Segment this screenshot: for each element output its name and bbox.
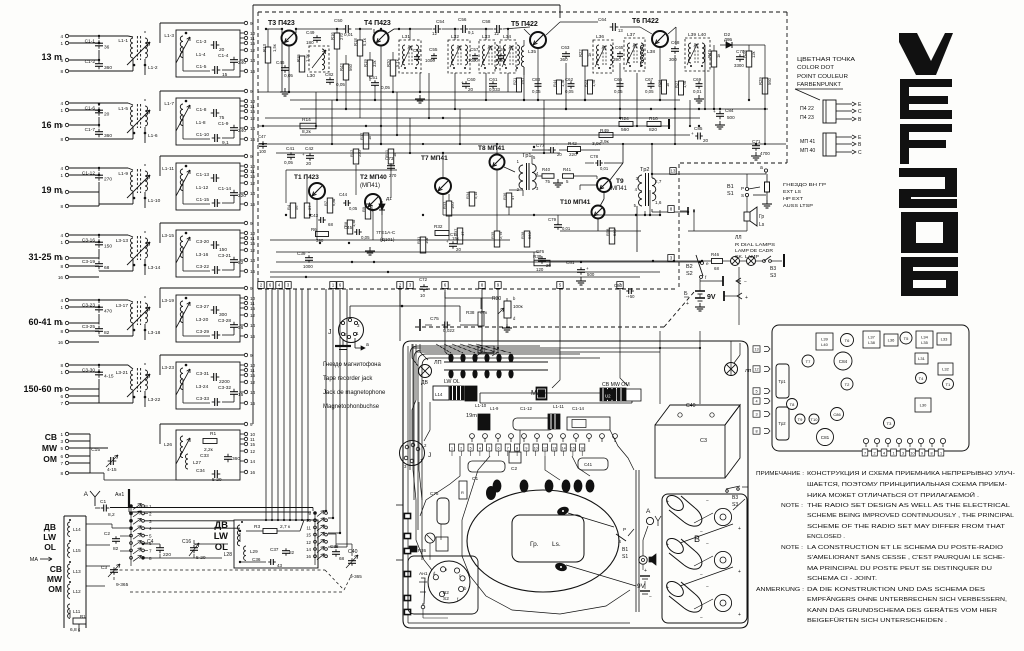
svg-text:8: 8 — [60, 264, 63, 269]
resistor R11 — [388, 149, 394, 164]
svg-text:L32: L32 — [942, 367, 949, 372]
svg-text:5: 5 — [60, 387, 63, 392]
svg-text:16: 16 — [250, 470, 256, 475]
wire — [182, 247, 184, 271]
svg-text:C33: C33 — [200, 453, 209, 459]
svg-text:6: 6 — [60, 394, 63, 399]
wire — [281, 29, 283, 92]
svg-text:L1-8: L1-8 — [196, 120, 206, 126]
coil L3-23 — [180, 368, 183, 390]
svg-text:FARBENPUNKT: FARBENPUNKT — [797, 82, 842, 88]
svg-text:1: 1 — [892, 452, 894, 456]
svg-text:B1: B1 — [622, 547, 628, 553]
svg-text:8,2: 8,2 — [108, 512, 115, 518]
svg-text:14: 14 — [250, 459, 256, 464]
svg-text:470: 470 — [104, 309, 112, 315]
svg-text:L1-3: L1-3 — [164, 33, 174, 39]
svg-text:C1-2: C1-2 — [85, 59, 96, 65]
svg-text:Tр2: Tр2 — [640, 167, 649, 173]
wire — [651, 144, 653, 178]
edge connector tab 5 — [557, 282, 563, 289]
svg-text:T5 П422: T5 П422 — [511, 21, 538, 28]
svg-text:270: 270 — [389, 173, 397, 178]
svg-text:L14: L14 — [435, 392, 443, 397]
svg-text:L1-1: L1-1 — [118, 38, 128, 44]
svg-text:1,3к: 1,3к — [305, 54, 310, 62]
svg-text:15: 15 — [238, 392, 244, 398]
wire — [524, 29, 530, 35]
svg-text:ГНЕЗДО ВН ГР: ГНЕЗДО ВН ГР — [783, 182, 826, 187]
svg-text:56: 56 — [238, 325, 244, 331]
capacitor C86 — [831, 408, 844, 421]
svg-text:L35: L35 — [528, 49, 536, 55]
chassis top interior rails — [412, 347, 700, 349]
svg-text:8: 8 — [60, 329, 63, 334]
svg-text:C56: C56 — [458, 17, 467, 22]
svg-text:L27: L27 — [193, 460, 201, 466]
ground — [284, 88, 286, 92]
svg-text:T10: T10 — [811, 417, 819, 422]
svg-text:+: + — [302, 152, 305, 157]
resistor R36 — [506, 193, 512, 207]
svg-text:ПРИМЕЧАНИЕ :: ПРИМЕЧАНИЕ : — [756, 471, 804, 477]
resistor R16 — [334, 33, 340, 49]
coil L11 — [68, 604, 70, 618]
svg-text:1к: 1к — [587, 53, 592, 57]
svg-text:ДВ: ДВ — [44, 522, 56, 532]
wire — [182, 180, 184, 204]
svg-text:220: 220 — [357, 150, 362, 157]
terminal 14 — [244, 58, 247, 61]
terminal 15 — [244, 109, 247, 112]
svg-text:KANN DAS GRUNDSCHEMA DES G: KANN DAS GRUNDSCHEMA DES GERÄTES VOM HIE… — [807, 607, 997, 614]
transistor T8 — [787, 399, 798, 410]
svg-text:2,7 к: 2,7 к — [280, 524, 291, 530]
svg-text:C1-3: C1-3 — [196, 39, 207, 45]
dashed gang coupling — [113, 570, 115, 580]
headphone jack chassis — [639, 556, 647, 564]
svg-text:C40: C40 — [686, 403, 696, 409]
coil unit L13 — [465, 386, 477, 401]
svg-text:1,6: 1,6 — [655, 200, 662, 205]
svg-text:C80: C80 — [614, 283, 623, 288]
svg-text:e: e — [706, 261, 709, 266]
coil L14 — [68, 522, 70, 536]
svg-text:R4: R4 — [286, 204, 291, 210]
svg-text:S'AMELIORANT SANS CESSE , C': S'AMELIORANT SANS CESSE , C'EST PAURQUAI… — [807, 555, 1005, 561]
svg-text:T6: T6 — [845, 338, 850, 343]
svg-text:C3: C3 — [101, 565, 107, 571]
svg-text:−: − — [700, 572, 703, 578]
svg-text:L30: L30 — [307, 73, 315, 79]
svg-text:L3-13: L3-13 — [116, 238, 129, 244]
svg-text:B3: B3 — [770, 266, 776, 272]
svg-text:C3-22: C3-22 — [196, 264, 209, 270]
svg-text:C55: C55 — [429, 47, 438, 52]
svg-text:-+50: -+50 — [626, 294, 635, 299]
svg-text:C: C — [858, 150, 862, 156]
svg-text:L3-16: L3-16 — [196, 252, 209, 258]
svg-text:20: 20 — [456, 247, 461, 252]
wire — [422, 609, 424, 618]
svg-text:160: 160 — [450, 202, 455, 209]
svg-text:4-15: 4-15 — [104, 374, 114, 380]
svg-text:C77: C77 — [536, 143, 545, 148]
terminal 10 — [244, 164, 247, 167]
wire — [239, 533, 241, 542]
resistor R9 — [365, 204, 371, 219]
svg-text:C46: C46 — [276, 60, 285, 65]
resistor R58 — [609, 228, 615, 244]
svg-text:R18: R18 — [353, 38, 358, 46]
svg-text:14: 14 — [306, 547, 311, 552]
svg-text:R58: R58 — [605, 228, 610, 236]
svg-text:C58: C58 — [482, 19, 491, 24]
wire — [160, 22, 244, 24]
svg-text:НИКА МОЖЕТ ОТЛИЧАТЬСЯ ОТ П: НИКА МОЖЕТ ОТЛИЧАТЬСЯ ОТ ПРИЛАГАЕМОЙ . — [807, 491, 979, 499]
svg-text:L3-14: L3-14 — [148, 265, 161, 271]
svg-text:(МП41): (МП41) — [360, 183, 380, 189]
terminal 9 — [244, 154, 247, 157]
svg-text:C74: C74 — [450, 232, 459, 237]
svg-text:U2: U2 — [605, 394, 611, 399]
terminal 11 — [244, 169, 247, 172]
svg-text:3300: 3300 — [734, 63, 744, 68]
svg-text:Д9Б: Д9Б — [724, 37, 732, 42]
svg-text:C1-12: C1-12 — [520, 406, 533, 411]
svg-text:180: 180 — [306, 40, 314, 45]
wire — [160, 222, 244, 224]
svg-text:BEIGEFÜRTEN SICH UNTERSCHEID: BEIGEFÜRTEN SICH UNTERSCHEIDEN . — [807, 617, 947, 624]
svg-text:5: 5 — [60, 321, 63, 326]
resistor R35 — [494, 231, 500, 247]
svg-text:8: 8 — [516, 447, 518, 451]
svg-text:S1: S1 — [622, 554, 628, 560]
svg-text:47: 47 — [510, 195, 515, 200]
wire — [160, 155, 244, 157]
svg-text:4: 4 — [60, 166, 63, 171]
terminal 15 — [244, 174, 247, 177]
band switch drum — [444, 361, 548, 363]
wire — [481, 289, 483, 341]
svg-text:R20: R20 — [386, 59, 391, 67]
transistor T3 — [884, 418, 895, 429]
svg-text:0,05: 0,05 — [361, 235, 370, 240]
svg-text:C63: C63 — [561, 45, 570, 50]
svg-text:16 m: 16 m — [41, 120, 62, 130]
band switch S1 contacts — [130, 505, 133, 508]
svg-text:16: 16 — [58, 340, 64, 345]
svg-text:T10 МП41: T10 МП41 — [560, 199, 591, 206]
svg-text:POINT COULEUR: POINT COULEUR — [797, 74, 848, 80]
svg-text:12: 12 — [754, 368, 758, 372]
wire — [740, 44, 765, 46]
svg-text:15: 15 — [250, 442, 256, 447]
svg-text:J: J — [328, 329, 332, 336]
wire — [252, 5, 254, 23]
switch B3 S3 — [763, 260, 766, 263]
svg-text:LW: LW — [43, 532, 57, 542]
svg-text:3: 3 — [902, 452, 904, 456]
svg-text:560: 560 — [612, 229, 617, 236]
svg-text:C64: C64 — [598, 17, 607, 22]
capacitor C1-6 — [95, 109, 103, 111]
svg-text:4700: 4700 — [760, 151, 770, 156]
ground — [342, 339, 344, 346]
svg-text:9,1: 9,1 — [222, 140, 229, 146]
svg-text:OM: OM — [43, 454, 57, 464]
wire — [252, 23, 254, 424]
svg-text:5: 5 — [60, 190, 63, 195]
svg-text:C47: C47 — [258, 134, 266, 139]
svg-text:2,7: 2,7 — [655, 179, 662, 184]
svg-text:68: 68 — [714, 266, 719, 271]
resistor R21 — [517, 78, 522, 92]
svg-text:L3-19: L3-19 — [162, 298, 175, 304]
svg-text:68: 68 — [104, 265, 110, 271]
terminal 16 — [244, 401, 247, 404]
svg-text:C3: C3 — [700, 438, 707, 444]
svg-text:MW: MW — [47, 574, 63, 584]
svg-text:L3-23: L3-23 — [162, 365, 175, 371]
svg-text:R38: R38 — [466, 310, 475, 315]
wire — [442, 153, 444, 178]
svg-text:1: 1 — [60, 173, 63, 178]
svg-text:ENCLOSED .: ENCLOSED . — [807, 534, 845, 540]
svg-text:8: 8 — [60, 204, 63, 209]
svg-text:R29: R29 — [758, 77, 763, 85]
svg-text:7: 7 — [60, 401, 63, 406]
svg-text:270: 270 — [339, 32, 344, 40]
dial lamp LP left — [419, 365, 432, 378]
svg-text:−: − — [706, 541, 709, 547]
terminal 10 — [244, 31, 247, 34]
svg-text:C79: C79 — [548, 217, 557, 222]
connector pin — [668, 119, 670, 129]
wire — [182, 47, 184, 71]
wire — [336, 29, 338, 33]
chassis interior corner traces — [410, 346, 540, 470]
svg-text:C75: C75 — [430, 491, 439, 496]
svg-text:Magnetophonbuchse: Magnetophonbuchse — [323, 404, 380, 410]
svg-text:C36: C36 — [252, 557, 261, 562]
svg-text:56: 56 — [294, 205, 299, 210]
svg-text:C1-13: C1-13 — [196, 172, 209, 178]
speaker terminal — [554, 562, 568, 573]
junction dots — [315, 125, 317, 127]
svg-text:S2: S2 — [443, 596, 449, 602]
terminal 11 — [244, 236, 247, 239]
svg-text:T2: T2 — [845, 382, 850, 387]
svg-text:C1: C1 — [100, 499, 106, 505]
svg-text:EMPFÄNGERS OHNE UNTERBRECHEN: EMPFÄNGERS OHNE UNTERBRECHEN SICH VERBES… — [807, 596, 1007, 603]
svg-text:L35: L35 — [921, 340, 928, 345]
junction dots — [659, 347, 661, 349]
wire bus — [270, 239, 510, 241]
svg-text:9: 9 — [921, 452, 923, 456]
svg-text:2: 2 — [873, 452, 875, 456]
svg-text:7: 7 — [60, 461, 63, 466]
svg-text:Tape recorder jack: Tape recorder jack — [323, 376, 373, 382]
svg-text:L14: L14 — [73, 527, 81, 532]
svg-text:15: 15 — [306, 533, 311, 538]
svg-text:J: J — [428, 452, 431, 459]
svg-text:T3: T3 — [887, 421, 892, 426]
svg-text:R26: R26 — [657, 79, 662, 87]
svg-text:C86: C86 — [833, 412, 841, 417]
speaker icon — [649, 557, 652, 562]
svg-text:9-365: 9-365 — [116, 582, 129, 588]
svg-text:c: c — [459, 573, 461, 578]
svg-text:T6 П422: T6 П422 — [632, 18, 659, 25]
svg-text:Tр2: Tр2 — [778, 421, 786, 426]
svg-text:1: 1 — [60, 41, 63, 46]
svg-text:C3-31: C3-31 — [196, 371, 209, 377]
svg-text:C3-19: C3-19 — [82, 259, 95, 265]
ground — [369, 247, 371, 251]
svg-text:7: 7 — [149, 548, 152, 553]
svg-text:CB: CB — [45, 432, 57, 442]
svg-text:S3: S3 — [770, 273, 776, 279]
battery cell — [664, 578, 686, 599]
coil unit 11 — [536, 387, 547, 400]
svg-text:C84: C84 — [725, 108, 734, 113]
svg-text:C49: C49 — [306, 30, 315, 35]
logo VEF206 — [899, 33, 958, 296]
svg-text:C1-14: C1-14 — [572, 406, 585, 411]
chassis interior wires — [412, 344, 418, 366]
battery cell end — [714, 594, 731, 611]
svg-text:R19: R19 — [363, 59, 368, 67]
svg-text:→ •: → • — [551, 141, 558, 146]
coil L15 — [68, 543, 70, 557]
svg-text:C2: C2 — [511, 466, 517, 472]
svg-text:R28: R28 — [742, 50, 747, 58]
wire — [642, 564, 644, 570]
svg-text:L13: L13 — [73, 569, 81, 574]
wire — [460, 324, 478, 326]
terminal 11 — [244, 437, 247, 440]
svg-text:560: 560 — [767, 77, 772, 85]
svg-text:+: + — [666, 585, 669, 591]
terminal 16 — [244, 269, 247, 272]
transistor T1 — [943, 379, 954, 390]
svg-text:12: 12 — [543, 447, 547, 451]
terminal 12 — [244, 248, 247, 251]
svg-text:T3 П423: T3 П423 — [268, 20, 295, 27]
svg-text:MW: MW — [42, 443, 58, 453]
PCB bottom clips — [863, 438, 868, 443]
svg-text:220: 220 — [163, 552, 171, 558]
resistor R15 — [299, 56, 305, 72]
svg-text:27: 27 — [307, 205, 312, 210]
capacitor C1-7 — [95, 131, 103, 133]
transistor T6 — [841, 334, 854, 347]
svg-text:C44: C44 — [339, 192, 348, 197]
svg-text:C82: C82 — [325, 72, 334, 77]
coil L26 — [180, 436, 183, 458]
svg-text:R15: R15 — [296, 54, 301, 62]
connector plug plus — [723, 291, 725, 301]
svg-text:C40: C40 — [348, 549, 358, 555]
svg-text:0,05: 0,05 — [614, 89, 623, 94]
wire bundle to band switch — [325, 289, 327, 511]
svg-text:C78: C78 — [590, 154, 599, 159]
svg-text:C72: C72 — [419, 277, 428, 282]
svg-text:R22: R22 — [578, 49, 583, 57]
wire — [568, 513, 614, 527]
svg-text:2: 2 — [460, 447, 462, 451]
svg-text:2: 2 — [149, 511, 152, 516]
resistor R38 — [524, 231, 530, 247]
svg-text:L3-15: L3-15 — [162, 233, 175, 239]
edge connector tab 13 — [670, 168, 676, 175]
svg-text:2,2к: 2,2к — [204, 447, 214, 453]
ground — [755, 152, 757, 156]
svg-text:МП 41: МП 41 — [800, 139, 815, 145]
wire — [694, 513, 713, 523]
wire — [98, 168, 100, 171]
svg-text:T5: T5 — [904, 336, 909, 341]
svg-text:20: 20 — [468, 87, 474, 92]
svg-text:82: 82 — [113, 546, 119, 552]
resistor R7 — [327, 198, 333, 213]
terminal 14 — [244, 258, 247, 261]
svg-text:R38: R38 — [520, 231, 525, 239]
svg-text:5: 5 — [60, 58, 63, 63]
transformer Tr2 — [776, 407, 789, 440]
svg-text:10: 10 — [534, 447, 538, 451]
svg-text:R12: R12 — [349, 149, 354, 157]
svg-text:0,01: 0,01 — [600, 166, 609, 171]
svg-text:C84: C84 — [839, 359, 848, 364]
svg-text:R35: R35 — [490, 231, 495, 239]
svg-text:ЛП: ЛП — [434, 360, 442, 366]
svg-text:8,2к: 8,2к — [302, 129, 312, 135]
terminal 12 — [244, 181, 247, 184]
svg-text:+: + — [691, 131, 694, 136]
transistor T9 — [795, 414, 805, 424]
svg-text:B3: B3 — [732, 495, 738, 501]
svg-text:L12: L12 — [73, 589, 81, 594]
wire — [504, 167, 515, 172]
wire — [536, 175, 542, 177]
svg-text:L3-22: L3-22 — [148, 397, 161, 403]
svg-text:L15: L15 — [73, 548, 81, 553]
svg-text:R17: R17 — [359, 132, 364, 140]
wire — [739, 343, 741, 355]
svg-text:82: 82 — [104, 330, 110, 336]
svg-text:R36: R36 — [502, 192, 507, 200]
svg-text:13: 13 — [552, 447, 556, 451]
shield box L1-3 — [176, 30, 240, 77]
svg-text:C1-8: C1-8 — [196, 107, 207, 113]
edge connector tab 6 — [337, 282, 343, 289]
capacitor C1 — [468, 461, 505, 472]
svg-text:+: + — [745, 295, 748, 301]
svg-text:C3-21: C3-21 — [218, 253, 231, 259]
svg-text:C3-20: C3-20 — [196, 239, 209, 245]
capacitor C3-30 — [95, 371, 103, 373]
svg-text:75: 75 — [545, 179, 550, 184]
svg-text:13: 13 — [671, 169, 676, 174]
black component — [486, 486, 496, 500]
resistor R37 — [457, 228, 463, 244]
svg-text:20: 20 — [703, 138, 709, 143]
svg-text:L1-9: L1-9 — [490, 406, 499, 411]
terminal 11 — [244, 301, 247, 304]
svg-text:R31: R31 — [416, 236, 421, 244]
